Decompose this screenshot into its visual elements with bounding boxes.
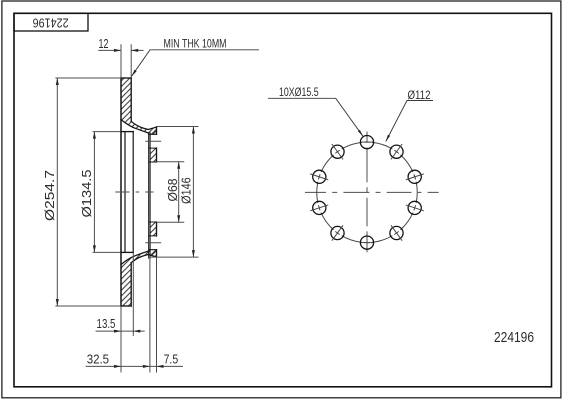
dimension Ø134.5: extension lines [93,132,121,253]
leader MIN THK 10MM [132,50,259,76]
disc OD bottom edge [121,305,131,307]
svg-text:Ø146: Ø146 [179,177,193,204]
svg-text:7.5: 7.5 [164,353,179,367]
cone outer line bottom [131,255,156,263]
disc inboard face top [130,78,132,121]
cone inner line bottom [121,251,149,265]
vertical centerline [366,132,368,253]
svg-text:Ø254.7: Ø254.7 [43,170,57,221]
svg-text:12: 12 [99,36,109,51]
bolt hole at 6 o'clock [360,236,373,249]
bottom dimensions: extension line from relief plane (13.5) [132,252,134,336]
dimension Ø254.7: dimension line [56,78,58,306]
arrowheads 32.5 and 7.5 [114,365,121,368]
relief bottom plane edge [132,132,134,253]
dimension Ø68: dimension line [178,162,180,222]
bolt hole upper-right [390,145,403,158]
svg-text:Ø134.5: Ø134.5 [80,169,94,217]
bolt hole at 12 o'clock [360,136,373,149]
arrowheads 13.5 [114,330,121,333]
hat face inner junction line [148,134,150,258]
radial centermark lower-left hole [332,225,343,240]
horizontal centerline of section [115,191,153,193]
bolt hole lower-right [390,226,403,239]
svg-text:Ø112: Ø112 [408,88,431,102]
hat face left surface [149,133,151,258]
bottom dimensions: extension line from outboard face [120,306,122,373]
svg-text:10XØ15.5: 10XØ15.5 [279,85,319,99]
svg-text:Ø68: Ø68 [166,178,180,201]
centermark top hole [361,141,373,143]
section hatch: bottom friction ring and cone [121,250,156,306]
section hatch: hat face between bolt hole and bore (top) [150,148,156,162]
radial centermark left-upper hole [310,174,328,180]
dimension Ø146: dimension line [192,127,194,258]
radial centermark right-upper hole [406,174,424,180]
section hatch: hat face between bore and bolt hole (bottom) [150,222,156,236]
radial centermark lower-right hole [391,225,402,240]
radial centermark upper-left hole [332,144,343,159]
bolt hole edges top [149,134,157,148]
bolt hole edges bottom [149,236,157,250]
svg-text:224196: 224196 [494,330,534,346]
leader 10XØ15.5 [268,98,363,136]
dimension Ø254.7: extension lines [55,78,121,306]
dimension 12: extension lines [121,44,131,77]
dimension Ø68: extension lines [157,162,185,222]
dimension 13.5: dimension line [96,330,145,332]
arrowheads dimension 12 [114,49,121,52]
arrowheads Ø68 [177,162,180,169]
bottom dimensions: extension line from hat face left (32.5) [149,257,151,372]
title block box top-left [14,13,88,31]
dimensions 32.5 and 7.5: dimension line [86,365,183,367]
dimension Ø146: extension lines [150,127,199,258]
arrowheads Ø146 [192,127,195,134]
hat mounting face (right surface) [156,127,158,257]
leader Ø112 [386,101,433,142]
svg-text:MIN THK 10MM: MIN THK 10MM [164,36,227,50]
dimension 12: dimension line [98,49,143,51]
arrowheads Ø254.7 [56,78,59,85]
svg-text:13.5: 13.5 [97,317,116,331]
radial centermark right-lower hole [406,205,424,211]
center bore edges (Ø68) [149,162,157,222]
extra hatch ticks in hat face corners [152,130,157,256]
relief chamfer circle edge [124,132,126,252]
cone inner line top [121,120,149,134]
arrowhead leader Ø112 [386,135,390,142]
relief step edge bottom (R134.5) [121,251,133,253]
disc outboard face [120,78,122,306]
bolt hole centermarks in section [145,141,161,243]
arrowhead leader 10XØ15.5 [358,130,363,136]
cone outer line top [131,121,156,129]
disc inboard face bottom [130,263,132,306]
relief step edge top (R134.5) [121,131,133,133]
svg-text:32.5: 32.5 [87,353,109,367]
bolt hole right-lower [408,201,421,214]
section hatch: top friction ring and cone [121,78,156,134]
arrowhead MIN THK leader [132,70,137,76]
bolt hole lower-left [331,226,344,239]
radial centermark left-lower hole [310,205,328,211]
bolt hole right-upper [408,170,421,183]
bolt pitch circle Ø112 (dash-dot) [317,142,418,243]
dimension Ø134.5: dimension line [93,132,95,253]
radial centermark upper-right hole [391,144,402,159]
centermark bottom hole [361,242,373,244]
arrowheads Ø134.5 [93,132,96,139]
disc OD top edge [121,77,131,79]
bolt hole left-upper [313,170,326,183]
bolt hole upper-left [331,145,344,158]
svg-text:224196: 224196 [33,15,69,30]
bolt hole left-lower [313,201,326,214]
bottom dimensions: extension line from mounting face (7.5) [156,257,158,372]
horizontal centerline [305,191,439,193]
